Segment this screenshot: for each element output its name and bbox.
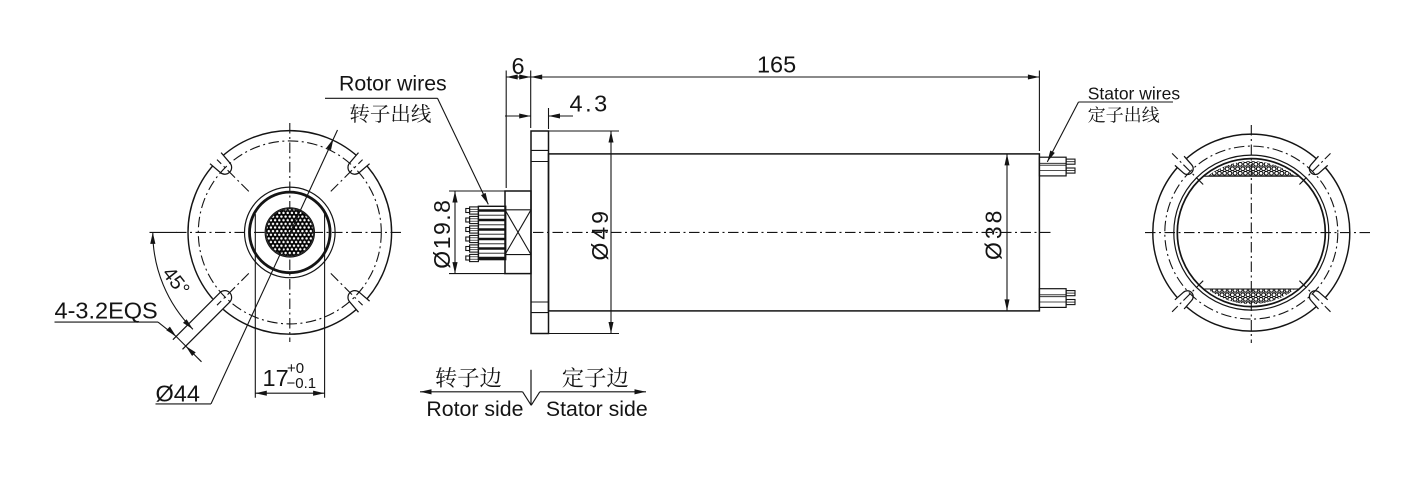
6 dim text [512, 53, 525, 79]
svg-text:Stator side: Stator side [546, 397, 648, 421]
3.2 slot dim line [158, 322, 202, 362]
Stator side label [546, 397, 648, 421]
right slot notch top-right [1305, 155, 1329, 179]
right slot notch bottom-left [1173, 287, 1197, 311]
stator contact segment bottom [1203, 289, 1299, 304]
stator wires leader [1047, 102, 1173, 162]
hub outer thin circle [244, 187, 335, 278]
165 dim right extension line [1038, 71, 1040, 152]
45deg dimension arc [150, 232, 193, 329]
right slot notch bottom-right [1305, 287, 1329, 311]
165 dim text [757, 52, 796, 78]
svg-text:Rotor side: Rotor side [426, 397, 523, 421]
svg-text:17: 17 [263, 365, 289, 391]
17 +0/-0.1 dim text [263, 360, 317, 392]
stator contact segment top [1203, 161, 1299, 176]
Ø38 dim line [1005, 154, 1010, 311]
middle view centerline [533, 231, 1053, 233]
17 dim line with arrows [255, 391, 324, 396]
rotor wire bundle outline [265, 208, 314, 257]
right inner thick circle [1177, 159, 1325, 307]
hub thick circle (Ø19.8 boss) [249, 192, 330, 273]
left view horizontal centerline [176, 231, 404, 233]
right view horizontal centerline [1145, 232, 1372, 234]
Rotor side label [426, 397, 523, 421]
Ø19.8 text [429, 199, 455, 269]
flange plate Ø49 [531, 131, 549, 334]
Rotor wires label [339, 72, 447, 96]
45deg reference line [150, 231, 177, 233]
4.3 dim arrows outside [505, 114, 573, 119]
4-3.2EQS label [55, 298, 159, 324]
slot notch bottom-right [344, 287, 371, 314]
right view vertical centerline [1250, 125, 1252, 343]
stator wires stub top [1039, 157, 1075, 176]
4.3 dim extension line [548, 108, 550, 129]
svg-text:Ø44: Ø44 [156, 380, 200, 406]
stator wires stub bottom [1039, 289, 1075, 308]
rotor wires in block [478, 211, 505, 259]
hub Ø19.8 cylinder [505, 191, 531, 274]
bolt circle dash-dot (Ø44) [198, 141, 381, 324]
shaft X-box section [505, 210, 531, 255]
Ø49 text [587, 208, 613, 260]
rotor side arrow line [420, 389, 531, 405]
slot notch top-left [209, 151, 236, 178]
stator wires CJK 定子出线 [1088, 106, 1159, 123]
Stator wires label [1088, 83, 1181, 103]
left view outer circle (flange face) [188, 131, 392, 335]
svg-text:Rotor wires: Rotor wires [339, 72, 447, 96]
Ø44 label [156, 380, 212, 406]
side divider line [530, 370, 532, 405]
Ø19.8 ext lines [449, 191, 505, 274]
45deg text [158, 263, 194, 300]
6 dim extension lines [506, 71, 531, 189]
right view diagonal centerlines [1172, 153, 1330, 311]
rotor wire bundle dotted fill [266, 209, 313, 256]
svg-text:Ø49: Ø49 [587, 208, 613, 260]
165 dim line [531, 75, 1040, 80]
rotor wires leader [325, 98, 488, 204]
right slot notch top-left [1173, 155, 1197, 179]
Ø38 text [981, 208, 1007, 260]
Ø44 leader line [211, 130, 338, 404]
Ø49 ext lines [549, 131, 620, 334]
rotor wire connector block [478, 206, 505, 259]
svg-text:165: 165 [757, 52, 796, 78]
Ø19.8 dim line [452, 191, 457, 274]
slot notch bottom-left (extended for dimension) [173, 287, 236, 350]
Ø49 dim line [609, 131, 614, 334]
right inner thin circle [1174, 155, 1329, 310]
left view diagonal centerlines [217, 160, 363, 306]
rotor connector pins [466, 207, 479, 262]
svg-text:4-3.2EQS: 4-3.2EQS [55, 298, 158, 324]
svg-text:Ø19.8: Ø19.8 [429, 199, 455, 269]
rotor wires CJK 转子出线 [350, 104, 431, 123]
svg-text:−0.1: −0.1 [287, 375, 317, 392]
stator side arrow line [531, 389, 646, 405]
svg-text:4.3: 4.3 [570, 91, 610, 117]
svg-text:Stator wires: Stator wires [1088, 83, 1181, 103]
right view outer circle [1153, 134, 1350, 331]
slot notch top-right [344, 151, 371, 178]
right bolt circle dash-dot [1165, 146, 1338, 319]
4.3 dim text [570, 91, 610, 117]
left view vertical centerline [289, 123, 291, 342]
stator side CJK 定子边 [563, 367, 628, 387]
17 dim extension lines [255, 214, 324, 398]
svg-text:6: 6 [512, 53, 525, 79]
main body Ø38 cylinder [549, 154, 1040, 311]
6 dim line [506, 75, 531, 80]
rotor side CJK 转子边 [436, 367, 501, 388]
svg-text:Ø38: Ø38 [981, 208, 1007, 260]
flange plate slot projection lines [531, 150, 549, 312]
